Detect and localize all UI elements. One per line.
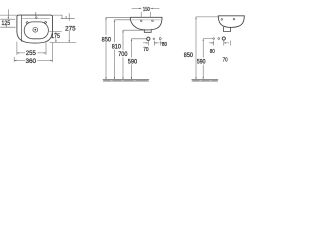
dim 360: dimension line xyxy=(14,59,52,61)
bottom extension line (front edge) xyxy=(50,41,76,43)
dim 80 (front): arrow xyxy=(160,42,164,44)
washbasin outline (plan) xyxy=(17,15,53,43)
shelf divider line xyxy=(21,15,23,41)
svg-text:70: 70 xyxy=(143,47,148,53)
dim 255: extension lines xyxy=(17,42,46,55)
dim 275: top extension line xyxy=(53,14,63,16)
dim 275: step line xyxy=(61,18,75,20)
dim 70 (front): arrows xyxy=(143,42,159,44)
basin front silhouette xyxy=(130,17,162,30)
fixing hole row (side): hole small 1 xyxy=(213,38,215,40)
fixing hole diamond left xyxy=(26,21,28,23)
dim 125: extension line top xyxy=(0,14,17,16)
dim 125: lower reference line xyxy=(1,26,16,28)
700 extension line xyxy=(123,29,145,31)
dim 175: dimension line xyxy=(55,33,57,42)
floor bar (right) xyxy=(192,79,218,82)
dim 80 (front): tick xyxy=(159,41,161,46)
dim 150: extension ticks xyxy=(141,12,150,17)
dim 125: dimension line with arrow xyxy=(7,10,9,19)
svg-text:590: 590 xyxy=(128,60,138,66)
tap hole xyxy=(36,17,38,19)
fixing hole row (front): big ring xyxy=(147,37,150,40)
wall extension line xyxy=(196,16,218,18)
dim 80 (side): ticks xyxy=(214,41,224,46)
dim 150: dimension line with outside arrows xyxy=(132,7,160,9)
svg-text:150: 150 xyxy=(143,7,150,13)
tap hole tick xyxy=(35,12,37,16)
590 dimension line (right) xyxy=(202,39,204,78)
dim 275: step tick xyxy=(61,15,63,19)
rim inner line xyxy=(132,19,161,21)
svg-text:810: 810 xyxy=(112,44,122,50)
hole medium xyxy=(159,38,161,40)
svg-text:80: 80 xyxy=(210,49,215,55)
svg-text:700: 700 xyxy=(118,52,128,58)
590 dimension line xyxy=(131,40,133,79)
850 extension line xyxy=(106,16,130,18)
hole small xyxy=(153,38,155,40)
svg-text:255: 255 xyxy=(26,50,36,57)
tap hole left (front) xyxy=(140,20,142,22)
hole small 2 xyxy=(218,38,220,40)
tap hole right (front) xyxy=(152,20,154,22)
dim 275: step arrow xyxy=(65,16,66,18)
dim 360: extension lines xyxy=(14,43,52,62)
svg-text:275: 275 xyxy=(65,25,76,32)
dim 80 (side): arrows xyxy=(209,42,213,44)
tap hole (side) xyxy=(221,19,223,21)
drain tab (front) xyxy=(144,30,151,33)
drain dot xyxy=(34,29,36,31)
drain tab (side) xyxy=(224,27,231,32)
svg-text:850: 850 xyxy=(102,37,112,43)
810 extension line xyxy=(115,19,131,21)
700 dimension line xyxy=(122,31,124,79)
svg-text:360: 360 xyxy=(26,58,37,65)
bowl (plan) xyxy=(24,22,48,39)
dim 175: mid extension line xyxy=(50,31,62,33)
floor bar (middle) xyxy=(103,79,149,82)
dim 125: extension line mid xyxy=(1,18,16,20)
850 dimension line (right) xyxy=(195,18,197,79)
dim 125: lower arrow xyxy=(5,26,7,27)
dim 70 (front): ticks xyxy=(148,41,154,46)
svg-text:590: 590 xyxy=(197,60,206,66)
svg-text:80: 80 xyxy=(162,42,167,48)
dim 255: dimension line xyxy=(17,52,46,54)
svg-text:70: 70 xyxy=(223,57,228,63)
dim 70 (side): ticks xyxy=(229,41,231,46)
fixing hole diamond right xyxy=(44,21,46,23)
ledge inner line xyxy=(22,17,50,19)
drain circle xyxy=(33,27,38,32)
810 dimension line xyxy=(114,21,116,79)
basin side silhouette xyxy=(218,16,244,28)
drain dot (side) xyxy=(233,18,235,20)
svg-text:850: 850 xyxy=(184,53,194,59)
big ring (side) xyxy=(222,37,225,40)
dim 70 (side): arrow xyxy=(224,42,229,44)
850 dimension line xyxy=(105,18,107,79)
svg-text:175: 175 xyxy=(51,33,60,40)
dim 275: dimension line xyxy=(68,13,70,42)
590 extension line xyxy=(132,38,147,40)
590 extension line (right) xyxy=(203,38,212,40)
